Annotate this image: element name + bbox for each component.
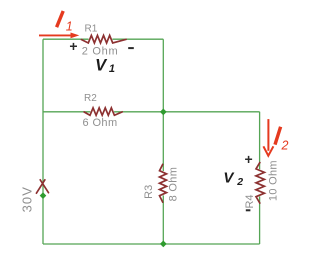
wire middle horizontal (R2 branch) <box>43 111 260 113</box>
wire left vertical (30V branch) <box>42 39 44 244</box>
node of voltage source <box>40 192 47 199</box>
resistor R4 <box>256 162 264 204</box>
svg-text:+: + <box>245 151 253 167</box>
wire right vertical (R4 branch) <box>259 112 261 244</box>
svg-text:R4: R4 <box>244 194 256 208</box>
svg-text:R3: R3 <box>143 185 155 199</box>
current I2 annotation glyph <box>275 127 281 145</box>
resistor R2 body mask <box>90 110 114 113</box>
svg-text:2: 2 <box>236 176 243 188</box>
current I1 arrow <box>39 34 73 36</box>
svg-text:V: V <box>223 170 235 187</box>
resistor R3 <box>160 164 167 203</box>
wire top horizontal (R1 branch) <box>43 38 163 40</box>
voltage source V=30V arrow symbol <box>36 180 48 193</box>
svg-text:30V: 30V <box>20 186 35 212</box>
svg-text:10 Ohm: 10 Ohm <box>267 160 279 201</box>
svg-text:V: V <box>95 57 108 75</box>
resistor R1 body mask <box>89 38 113 41</box>
node junction A (mid horizontal x R3 branch) <box>160 109 167 116</box>
wire middle vertical (R3 branch) <box>162 39 164 244</box>
voltage V2 polarity minus <box>246 209 251 211</box>
current I1 annotation glyph <box>57 11 64 27</box>
svg-text:1: 1 <box>66 20 73 34</box>
svg-text:6 Ohm: 6 Ohm <box>83 117 118 129</box>
svg-text:8 Ohm: 8 Ohm <box>168 167 180 202</box>
wire bottom horizontal <box>43 243 260 245</box>
svg-text:2: 2 <box>281 138 289 152</box>
svg-text:1: 1 <box>109 63 115 75</box>
svg-text:+: + <box>69 38 77 54</box>
resistor R1 <box>81 35 127 43</box>
svg-text:R1: R1 <box>85 24 98 35</box>
resistor R4 body mask <box>259 169 262 196</box>
node junction B (bottom wire x R3 branch) <box>160 241 167 248</box>
resistor R3 body mask <box>162 171 165 195</box>
voltage V1 polarity minus <box>128 47 134 49</box>
current I2 arrow <box>267 119 269 151</box>
svg-text:R2: R2 <box>84 93 97 104</box>
resistor R2 <box>84 108 123 115</box>
